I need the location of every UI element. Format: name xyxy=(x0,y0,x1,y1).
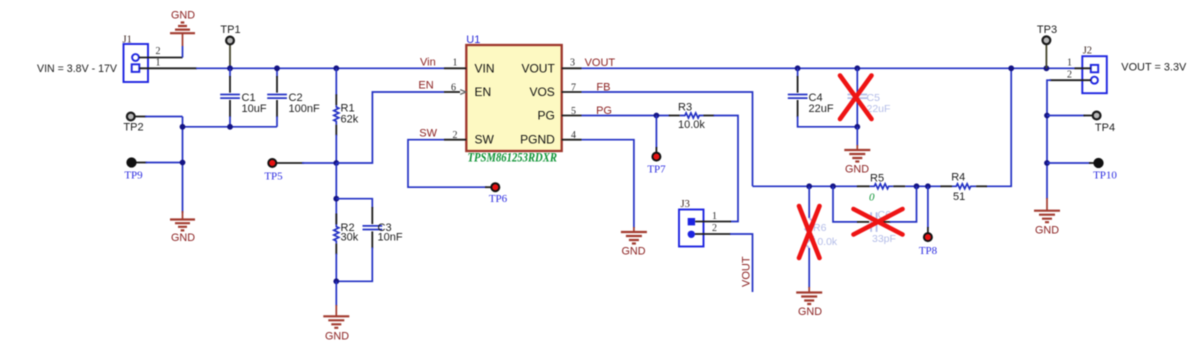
ground GND under R6 xyxy=(796,287,822,304)
connector J1 xyxy=(124,44,149,82)
wire J2 pin2 down chain xyxy=(1047,80,1051,199)
svg-text:TP6: TP6 xyxy=(489,193,508,205)
U1 pin 5 stub xyxy=(562,115,582,117)
ground GND top (inverted earth) xyxy=(170,23,195,47)
svg-text:EN: EN xyxy=(418,80,433,92)
svg-text:SW: SW xyxy=(475,133,495,147)
node VOUT/C5 xyxy=(854,65,860,71)
testpoint TP7 xyxy=(652,116,660,161)
node PG/TP7 xyxy=(654,113,660,119)
ground GND left xyxy=(170,211,195,230)
svg-text:GND: GND xyxy=(171,10,195,22)
svg-text:VOS: VOS xyxy=(529,85,554,99)
wire FB node row xyxy=(753,68,1012,186)
svg-text:1: 1 xyxy=(1067,58,1072,69)
testpoint TP8 xyxy=(924,186,932,241)
testpoint TP5 xyxy=(268,159,336,167)
svg-text:R3: R3 xyxy=(678,101,692,113)
wire main VIN rail xyxy=(196,67,444,69)
svg-text:51: 51 xyxy=(953,191,965,203)
svg-text:PGND: PGND xyxy=(520,133,555,147)
resistor R1 xyxy=(334,68,339,163)
svg-text:30k: 30k xyxy=(341,231,359,243)
svg-text:R5: R5 xyxy=(870,172,884,184)
node row/C6 left xyxy=(830,183,836,189)
DNP cross over C6 xyxy=(854,209,903,235)
node main/TP1/C1 xyxy=(227,65,233,71)
svg-text:J3: J3 xyxy=(681,199,690,210)
node rail/C1 xyxy=(227,124,233,130)
svg-text:1: 1 xyxy=(712,211,717,222)
svg-text:7: 7 xyxy=(571,83,576,94)
svg-text:J2: J2 xyxy=(1083,45,1092,56)
svg-text:TP3: TP3 xyxy=(1037,24,1057,36)
U1 pin 2 stub xyxy=(444,139,466,141)
node VOUT/R4 return xyxy=(1008,65,1014,71)
wire input cap bottom rail xyxy=(183,117,278,214)
node R2 bottom/C3 xyxy=(333,278,339,284)
node main/C2 xyxy=(274,65,280,71)
capacitor C5 (DNP) xyxy=(848,68,868,127)
ground GND under R2 xyxy=(323,281,349,328)
svg-text:U1: U1 xyxy=(466,34,480,46)
svg-text:Vin: Vin xyxy=(420,56,436,68)
J3 pin1 stub xyxy=(695,221,731,223)
svg-text:6: 6 xyxy=(451,83,456,94)
node VOUT/C4 xyxy=(795,65,801,71)
svg-text:2: 2 xyxy=(453,130,458,141)
U1 pin 4 stub xyxy=(562,139,582,141)
U1 pin 7 stub xyxy=(562,91,582,93)
wire J1 pin1 stub xyxy=(140,67,198,69)
svg-text:TPSM861253RDXR: TPSM861253RDXR xyxy=(468,150,558,164)
svg-text:TP10: TP10 xyxy=(1093,170,1117,182)
wire EN net xyxy=(336,92,444,163)
capacitor C1 xyxy=(220,68,240,127)
svg-text:2: 2 xyxy=(156,46,161,57)
svg-text:GND: GND xyxy=(798,306,822,318)
resistor R6 (DNP) with ghost zigzag xyxy=(805,186,813,288)
svg-text:2: 2 xyxy=(712,223,717,234)
U1 pin 6 stub xyxy=(444,91,460,93)
svg-text:5: 5 xyxy=(571,106,576,117)
svg-text:TP8: TP8 xyxy=(919,245,938,257)
node main/R1 xyxy=(333,65,339,71)
wire FB net xyxy=(582,92,753,186)
ground GND under C4/C5 xyxy=(844,127,870,162)
svg-text:100nF: 100nF xyxy=(289,103,320,115)
ground GND right xyxy=(1034,198,1060,222)
svg-text:GND: GND xyxy=(1035,225,1059,237)
svg-text:GND: GND xyxy=(171,232,195,244)
svg-text:10.0k: 10.0k xyxy=(678,119,705,131)
resistor R3 xyxy=(669,113,715,118)
svg-text:SW: SW xyxy=(419,127,437,139)
node chain/TP10 xyxy=(1044,160,1050,166)
wire SW net xyxy=(408,140,487,188)
svg-text:33pF: 33pF xyxy=(872,233,896,245)
svg-text:0: 0 xyxy=(869,192,875,204)
svg-text:2: 2 xyxy=(1067,69,1072,80)
svg-text:EN: EN xyxy=(475,85,492,99)
svg-text:PG: PG xyxy=(537,109,554,123)
svg-text:4: 4 xyxy=(571,130,576,141)
testpoint TP2 xyxy=(127,113,183,121)
svg-text:1: 1 xyxy=(453,58,458,69)
svg-text:10nF: 10nF xyxy=(378,232,403,244)
resistor R5 xyxy=(857,184,905,189)
J2 pin2 stub xyxy=(1050,79,1091,81)
op-amp U1 module body xyxy=(466,45,561,151)
svg-text:VOUT = 3.3V: VOUT = 3.3V xyxy=(1121,61,1187,73)
resistor R2 xyxy=(334,214,339,282)
svg-text:TP9: TP9 xyxy=(124,170,143,182)
testpoint TP6 xyxy=(485,183,499,191)
node R1/TP5/EN xyxy=(333,160,339,166)
node R2/C3 top xyxy=(333,196,339,202)
J2 pin1 stub xyxy=(1075,67,1091,69)
svg-text:GND: GND xyxy=(845,164,869,176)
testpoint TP9 xyxy=(127,158,182,167)
svg-text:VIN: VIN xyxy=(475,61,495,75)
node row/R6 xyxy=(806,183,812,189)
svg-text:22uF: 22uF xyxy=(809,103,834,115)
svg-text:VOUT: VOUT xyxy=(741,256,753,287)
wire J1 pin2 stub to GND corner xyxy=(139,57,183,59)
ground GND under PGND xyxy=(621,227,647,244)
testpoint TP1 xyxy=(226,37,234,69)
DNP cross over R6 xyxy=(799,206,820,258)
wire GND stem (blue part) xyxy=(182,46,184,58)
svg-text:VOUT: VOUT xyxy=(521,61,555,75)
node VOUT/TP3 xyxy=(1044,65,1050,71)
node chain/TP4 xyxy=(1044,113,1050,119)
U1 pin 3 stub xyxy=(562,67,582,69)
DNP cross over C5 xyxy=(840,76,872,120)
wire VOUT rail xyxy=(582,67,1076,69)
resistor R4 xyxy=(941,184,988,189)
svg-text:GND: GND xyxy=(325,331,349,343)
svg-text:VOUT: VOUT xyxy=(585,57,616,69)
svg-text:62k: 62k xyxy=(341,113,359,125)
svg-text:GND: GND xyxy=(622,246,646,258)
node TP9/left vertical xyxy=(180,160,186,166)
svg-text:TP5: TP5 xyxy=(264,171,283,183)
testpoint TP3 xyxy=(1043,36,1051,68)
connector J2 xyxy=(1082,56,1107,93)
svg-text:TP7: TP7 xyxy=(647,164,666,176)
svg-text:J1: J1 xyxy=(123,35,132,46)
node row/TP8 xyxy=(925,183,931,189)
svg-text:TP4: TP4 xyxy=(1095,122,1115,134)
svg-text:TP1: TP1 xyxy=(220,24,240,36)
node rail/left vertical xyxy=(180,124,186,130)
capacitor C2 xyxy=(267,68,287,127)
capacitor C4 xyxy=(788,68,858,127)
node row/C6 right xyxy=(914,183,920,189)
node C4 rail/C5 xyxy=(854,124,860,130)
testpoint TP10 xyxy=(1047,159,1103,168)
U1 pin 1 stub xyxy=(444,67,466,69)
wire PGND to ground xyxy=(582,140,634,228)
capacitor C6 (DNP) branch xyxy=(833,186,917,232)
connector J3 xyxy=(679,210,704,247)
pin 6 chevron xyxy=(460,90,466,95)
capacitor C3 xyxy=(336,199,382,282)
testpoint TP4 xyxy=(1047,112,1101,120)
wire R1 to R2 xyxy=(335,163,337,225)
wire J3 pin2 to VOUT stub xyxy=(730,234,753,292)
wire PG to R3 xyxy=(582,115,671,117)
svg-text:VIN = 3.8V - 17V: VIN = 3.8V - 17V xyxy=(37,63,118,75)
svg-text:10uF: 10uF xyxy=(242,103,267,115)
J3 pin2 stub xyxy=(695,233,731,235)
svg-text:1: 1 xyxy=(156,57,161,68)
svg-text:3: 3 xyxy=(570,58,575,69)
svg-text:TP2: TP2 xyxy=(123,122,143,134)
svg-text:R4: R4 xyxy=(951,171,965,183)
svg-text:R6: R6 xyxy=(813,222,827,234)
wire R3 to J3 pin1 xyxy=(714,116,739,222)
